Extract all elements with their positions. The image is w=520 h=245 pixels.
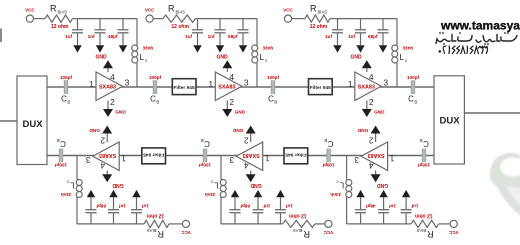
svg-text:SXA83: SXA83 — [99, 85, 116, 91]
svg-text:3: 3 — [125, 77, 130, 87]
svg-text:R: R — [303, 229, 310, 239]
svg-text:1: 1 — [389, 154, 394, 164]
svg-text:33nh: 33nh — [403, 46, 414, 51]
svg-text:100pf: 100pf — [55, 162, 67, 167]
svg-text:GND: GND — [250, 182, 262, 188]
svg-text:GND: GND — [232, 128, 243, 133]
svg-text:B: B — [324, 138, 327, 143]
svg-text:2: 2 — [229, 97, 234, 107]
svg-text:BIAS: BIAS — [293, 228, 303, 233]
svg-text:L: L — [214, 181, 219, 190]
svg-text:2: 2 — [368, 136, 373, 146]
svg-text:GND: GND — [350, 55, 362, 61]
svg-text:B: B — [414, 99, 417, 104]
svg-text:68pf: 68pf — [96, 203, 106, 208]
svg-text:68pf: 68pf — [368, 34, 378, 39]
svg-text:B: B — [274, 99, 277, 104]
svg-text:C: C — [327, 139, 333, 148]
svg-text:1uf: 1uf — [286, 203, 293, 208]
svg-text:1nf: 1nf — [88, 34, 95, 39]
svg-text:1nf: 1nf — [208, 34, 215, 39]
svg-text:4: 4 — [229, 72, 234, 82]
svg-text:4: 4 — [369, 72, 374, 82]
svg-text:SXA83: SXA83 — [358, 85, 375, 91]
svg-text:12 ohm: 12 ohm — [415, 212, 433, 218]
svg-text:33nh: 33nh — [205, 192, 216, 197]
svg-text:DUX: DUX — [22, 119, 43, 130]
svg-text:2: 2 — [100, 136, 105, 146]
svg-text:L: L — [70, 181, 75, 190]
svg-text:4: 4 — [368, 160, 373, 170]
svg-text:VCC: VCC — [323, 230, 333, 235]
svg-text:1uf: 1uf — [411, 203, 418, 208]
svg-text:1uf: 1uf — [325, 34, 332, 39]
svg-text:33nh: 33nh — [61, 192, 72, 197]
svg-text:R: R — [50, 3, 57, 13]
svg-text:100pf: 100pf — [267, 75, 279, 80]
svg-text:1: 1 — [89, 79, 94, 89]
svg-text:SXA83: SXA83 — [218, 85, 235, 91]
svg-text:1: 1 — [121, 154, 126, 164]
svg-text:12 ohm: 12 ohm — [289, 212, 307, 218]
svg-text:C: C — [61, 95, 67, 104]
svg-text:BIAS: BIAS — [58, 9, 68, 14]
svg-text:BIAS: BIAS — [147, 228, 157, 233]
svg-text:1nf: 1nf — [263, 203, 270, 208]
svg-text:R: R — [168, 3, 175, 13]
svg-text:GND: GND — [357, 128, 368, 133]
svg-text:4: 4 — [110, 72, 115, 82]
svg-text:SXA83: SXA83 — [99, 152, 116, 158]
svg-text:L: L — [260, 53, 265, 62]
svg-text:B: B — [420, 138, 423, 143]
svg-text:GND: GND — [377, 182, 389, 188]
svg-text:SXA83: SXA83 — [243, 152, 260, 158]
svg-text:12 ohm: 12 ohm — [51, 24, 69, 30]
svg-text:Filter 945: Filter 945 — [143, 152, 164, 158]
svg-text:BIAS: BIAS — [176, 9, 186, 14]
svg-text:4: 4 — [244, 160, 249, 170]
svg-text:Filter 945: Filter 945 — [174, 85, 195, 91]
svg-text:100pf: 100pf — [322, 162, 334, 167]
svg-text:BIAS: BIAS — [318, 9, 328, 14]
svg-text:B: B — [156, 99, 159, 104]
svg-text:GND: GND — [89, 128, 100, 133]
svg-text:48pf: 48pf — [108, 34, 118, 39]
svg-text:C: C — [60, 139, 66, 148]
svg-text:C: C — [423, 139, 429, 148]
svg-text:1uf: 1uf — [185, 34, 192, 39]
svg-text:1: 1 — [348, 79, 353, 89]
svg-text:3: 3 — [86, 155, 91, 165]
svg-text:3: 3 — [354, 155, 359, 165]
svg-text:33nh: 33nh — [263, 46, 274, 51]
svg-text:48pf: 48pf — [366, 203, 376, 208]
svg-text:1uf: 1uf — [142, 203, 149, 208]
svg-text:DUX: DUX — [439, 115, 460, 126]
svg-text:100pf: 100pf — [199, 162, 211, 167]
svg-text:GND: GND — [235, 109, 246, 114]
svg-text:GND: GND — [112, 182, 124, 188]
svg-text:1nf: 1nf — [389, 203, 396, 208]
svg-text:C: C — [408, 95, 414, 104]
svg-text:4: 4 — [100, 160, 105, 170]
svg-text:GND: GND — [95, 55, 107, 61]
svg-text:100pf: 100pf — [60, 75, 72, 80]
svg-text:68pf: 68pf — [228, 34, 238, 39]
svg-text:2: 2 — [110, 97, 115, 107]
svg-text:GND: GND — [374, 109, 385, 114]
svg-text:GND: GND — [115, 109, 126, 114]
svg-text:L: L — [140, 53, 145, 62]
svg-text:VCC: VCC — [145, 8, 155, 13]
svg-text:L: L — [339, 181, 344, 190]
svg-text:3: 3 — [383, 77, 388, 87]
svg-text:1: 1 — [208, 79, 213, 89]
svg-text:2: 2 — [369, 97, 374, 107]
svg-text:3: 3 — [229, 155, 234, 165]
svg-text:VCC: VCC — [25, 8, 35, 13]
svg-text:B: B — [201, 138, 204, 143]
svg-text:R: R — [310, 3, 317, 13]
svg-text:12 ohm: 12 ohm — [171, 24, 189, 30]
svg-text:C: C — [150, 95, 156, 104]
svg-text:C: C — [268, 95, 274, 104]
svg-text:1uf: 1uf — [65, 34, 72, 39]
svg-text:R: R — [427, 229, 434, 239]
svg-text:SXA83: SXA83 — [368, 152, 385, 158]
svg-text:GND: GND — [216, 55, 228, 61]
svg-text:12 ohm: 12 ohm — [146, 212, 164, 218]
svg-text:3: 3 — [244, 77, 249, 87]
svg-text:1nf: 1nf — [119, 203, 126, 208]
svg-text:VCC: VCC — [283, 8, 293, 13]
svg-text:Filter 945: Filter 945 — [285, 152, 306, 158]
svg-text:1nf: 1nf — [348, 34, 355, 39]
svg-text:Filter 945: Filter 945 — [310, 85, 331, 91]
svg-text:33nh: 33nh — [143, 46, 154, 51]
svg-text:www.tamasyar.com: www.tamasyar.com — [440, 18, 520, 32]
svg-text:R: R — [157, 229, 164, 239]
svg-text:100pf: 100pf — [418, 162, 430, 167]
svg-text:1: 1 — [265, 154, 270, 164]
svg-text:C: C — [204, 139, 210, 148]
svg-text:VCC: VCC — [181, 230, 191, 235]
svg-text:12 ohm: 12 ohm — [310, 24, 328, 30]
svg-text:33nh: 33nh — [330, 192, 341, 197]
svg-text:100pf: 100pf — [407, 75, 419, 80]
svg-text:L: L — [400, 53, 405, 62]
svg-text:100pf: 100pf — [149, 75, 161, 80]
svg-text:2: 2 — [244, 136, 249, 146]
svg-text:68pf: 68pf — [240, 203, 250, 208]
svg-text:BIAS: BIAS — [416, 228, 426, 233]
svg-text:B: B — [57, 138, 60, 143]
svg-text:B: B — [67, 99, 70, 104]
svg-text:VCC: VCC — [448, 230, 458, 235]
